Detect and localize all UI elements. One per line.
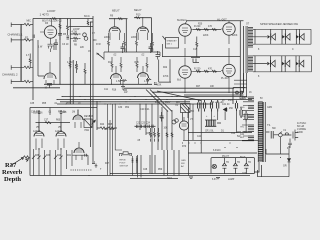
svg-text:OHMS: OHMS [239,98,246,100]
wire trem link [73,154,89,165]
svg-text:220K: 220K [232,35,238,37]
svg-text:C44: C44 [197,136,202,138]
svg-text:GRD: GRD [181,160,186,162]
resistor R15 vertical [111,57,113,72]
R37 Reverb Depth callout [2,158,24,184]
svg-text:R31: R31 [146,133,151,135]
svg-text:1 W: 1 W [38,46,43,49]
wire B+ bus 3 [60,101,190,103]
wire vertical x73 [72,60,74,104]
wire speaker dividers [282,29,297,72]
capacitor C42 [210,100,212,112]
svg-text:Reverb: Reverb [2,169,23,176]
plug P1 AC [293,130,298,141]
capacitor C4 gain [53,43,55,50]
wire T3 leads [183,100,189,121]
wire OT primary lead 2 [243,26,245,93]
transformer T1 core [264,102,266,162]
wire ps box corner [233,88,246,105]
resistor R7 vertical [69,57,71,69]
svg-text:R40: R40 [57,155,62,157]
svg-text:470K: 470K [163,76,169,78]
wire mid verticals [140,100,172,174]
wire resistor blobs P1P2 [196,29,217,31]
wire speaker row2 bottom rail [255,71,312,73]
svg-text:C28: C28 [143,169,148,171]
resistor R25 vertical [196,37,198,57]
resistor R31 vertical [154,128,156,142]
svg-text:GRN: GRN [267,107,272,109]
svg-text:R45: R45 [108,124,113,126]
tube V6A elements [75,110,82,128]
reverb pan box [84,119,92,128]
wire speaker row1 bottom rail [255,43,311,45]
tube P3 elements [182,58,193,93]
svg-text:R39: R39 [46,155,51,157]
capacitor C31 line filter [271,131,273,139]
tube V6B [74,148,84,153]
wire ch1 coupling [54,39,58,50]
svg-text:C35 R55: C35 R55 [31,112,41,114]
resistor R32 vertical [158,128,160,142]
resistor R59 [45,122,51,124]
svg-text:C26: C26 [89,116,94,118]
wire T1 bottom leads [254,162,262,177]
svg-text:MIC: MIC [27,20,32,23]
resistor R61 vertical [166,132,168,138]
svg-text:C60: C60 [242,173,247,175]
tube V2 elements [46,62,54,84]
speaker SP1 [268,35,271,39]
dashed gang line [71,169,92,171]
resistor R20 cathode [146,79,151,81]
svg-text:R57 20: R57 20 [58,112,66,114]
wire pot comb verticals [34,148,73,176]
tube V6A [73,115,83,120]
svg-text:R27: R27 [196,86,201,88]
wire input ground bus [13,87,60,89]
wire bottom verticals [138,150,180,178]
svg-text:220K: 220K [131,36,137,39]
potentiometer R37 [24,156,31,162]
speaker SP5 [282,62,285,66]
resistor R10 plate bus blob [136,17,141,19]
capacitor C5 [121,43,125,53]
svg-text:SPKR SPEAKER JENSEN 8Ω: SPKR SPEAKER JENSEN 8Ω [260,22,298,26]
tube V3B elements [138,18,147,40]
wire diagonal 3 [157,91,201,101]
resistor R6b [87,19,89,26]
svg-text:10K: 10K [210,86,215,88]
transformer T1 secondary 5 [248,136,254,141]
svg-text:TD: TD [237,162,240,164]
svg-text:R16: R16 [112,90,117,92]
wire input jack bus [20,27,22,81]
wire feedback stubs [234,80,247,88]
tube V6B elements [76,142,83,160]
svg-text:6.3V: 6.3V [212,179,217,181]
wire reverb links [39,108,78,151]
impedance selector [236,91,239,94]
capacitor C14 PI [156,51,161,60]
svg-text:R52: R52 [125,107,130,109]
svg-text:4.7M: 4.7M [72,32,77,34]
capacitor C38 [60,110,62,115]
wire P3P4 link [193,70,221,72]
wire ps bus B [183,139,262,141]
resistor R7b vertical [29,54,31,68]
wire AC bottom [258,137,290,177]
wire loop bus x90 [90,22,93,147]
tube V5A elements [36,123,43,150]
pot wiper arrows [32,156,63,159]
wire B+ bus 4 [57,103,212,105]
resistor R26 vertical [191,58,200,63]
svg-text:6L6: 6L6 [177,79,182,82]
tube V5B elements [58,123,65,150]
footswitch connector [120,152,132,156]
wire T2 bottom leads [244,73,247,97]
wire preamp ground bus [44,83,152,85]
capacitor C25 [160,112,164,122]
ground G5 [95,164,98,168]
resistor R2 [21,39,33,41]
svg-text:470: 470 [208,25,213,28]
svg-text:TD: TD [226,162,229,164]
tube V5B reverb [56,132,66,137]
svg-text:R22: R22 [163,67,168,69]
wire main vertical bus B [92,16,94,161]
junction dots [79,96,80,97]
svg-text:6C4: 6C4 [84,14,90,18]
jack J1 channel1 input1 [11,23,21,28]
lamp L1 [212,164,216,168]
wire reverb box inner bus [36,122,71,124]
ground G1 [121,81,125,89]
wire input bus [20,25,22,82]
svg-text:T1: T1 [267,123,271,127]
box pilot lamp enclosure [211,158,255,174]
wire diagonal 1 [146,90,168,112]
wire ps verticals [189,100,247,176]
wire speaker row1 top rail [255,28,311,30]
capacitor C6 [149,43,153,53]
transformer T1 secondary 4 [248,125,254,131]
thermistor S1 [222,158,226,174]
wire T2 taps row2 [253,56,267,72]
resistor R9 plate bus blob [118,18,123,20]
tube V7 elements [182,117,187,140]
tube P1 [179,24,191,36]
svg-text:1 4073: 1 4073 [40,13,50,17]
svg-text:6.3VAC: 6.3VAC [213,149,221,152]
tone caps row [135,125,155,128]
resistor chain R40 [97,127,117,129]
resistor R16 vertical [120,57,122,72]
wire box1 left vertical [32,19,34,101]
resistor R11 vertical [108,33,110,52]
svg-text:SW2: SW2 [167,178,173,180]
wire P1P2 link [193,29,221,31]
svg-text:C15: C15 [193,49,198,51]
svg-text:1.5K: 1.5K [144,80,149,83]
R37 arrow [10,158,24,167]
svg-text:1.5K: 1.5K [157,85,162,87]
svg-text:R15: R15 [135,62,140,64]
svg-text:R20: R20 [198,24,203,26]
wire AC line top [266,132,279,135]
wire bottom bus [30,175,250,177]
svg-text:R44 R45: R44 R45 [104,128,114,131]
svg-text:CHANNEL 1: CHANNEL 1 [8,33,23,37]
transformer T2 winding top [248,28,253,48]
wire vertical x70 [69,19,71,104]
wire PI links [159,59,171,82]
resistor blobs footswitch lines [132,159,138,162]
svg-text:220K: 220K [104,36,110,39]
transformer T1 secondary 1 [248,97,254,102]
svg-text:6EU7: 6EU7 [112,9,120,13]
wire vertical x97 [96,102,98,131]
resistor R17 vertical [136,57,138,72]
tube P4 [223,64,235,76]
wire box1 top [33,18,93,20]
capacitor C2 cathode [48,44,54,52]
capacitor C43 [217,100,219,112]
svg-text:R55: R55 [42,103,47,105]
rectifier block comb [205,120,216,126]
wire coupling drop 2 [151,18,153,52]
wire stage2 plate bus [109,18,128,20]
svg-text:PRI: PRI [190,111,194,113]
thermistor S2 [233,158,237,174]
resistor R4 [21,80,33,82]
ground symbols bottom [123,90,220,179]
wire coupling drop 1 [125,19,127,52]
svg-text:C40: C40 [231,133,236,135]
svg-text:R38: R38 [35,155,40,157]
jack J2 channel1 input2 [11,38,21,43]
svg-text:6EU7: 6EU7 [134,8,142,12]
svg-text:FOOT: FOOT [120,163,127,165]
tube V4B elements [139,66,148,84]
svg-text:SR: SR [283,164,287,168]
transformer T1 secondary 3 [248,115,254,120]
wire ground bus long [124,87,234,89]
svg-text:LAMP: LAMP [228,178,235,181]
speaker SP6 [296,62,299,66]
wire stage2b plate bus [134,17,152,19]
thermistor S3 [244,158,248,174]
svg-text:22K: 22K [80,47,85,49]
wire resistor blobs P3P4 [196,70,217,72]
jack J4 channel2 input2 [11,80,21,85]
capacitor C40 [198,100,200,112]
resistor R6 [71,33,81,35]
svg-text:6L6GC: 6L6GC [177,18,187,22]
resistor R19 cathode [121,80,127,82]
wire B+ bus 2 [57,99,252,101]
resistor R62 vertical [171,132,173,138]
svg-text:GRD: GRD [297,130,303,134]
svg-text:RED: RED [240,107,245,109]
resistor R5b vertical [67,19,69,35]
jack RCA out [172,120,176,124]
svg-text:R50: R50 [158,169,163,171]
wire speaker row2 right end [311,56,313,72]
wire V2 grid link [38,40,44,76]
tube V2 [44,73,56,79]
svg-text:C41 40: C41 40 [222,104,230,106]
wire OT primary lead 1 [239,21,241,97]
speaker SP4 [267,62,270,66]
svg-text:AL-007: AL-007 [217,18,227,22]
tube V4A [111,74,122,80]
tube V1 elements [40,19,54,44]
svg-text:220K: 220K [203,35,209,37]
svg-text:SW 1: SW 1 [167,44,173,46]
svg-text:CHANNEL 2: CHANNEL 2 [2,73,18,77]
svg-text:R47: R47 [105,163,110,165]
wire diagonal 2 [150,90,172,112]
wire ps bus A [188,132,252,134]
resistor R13 vertical [136,33,138,52]
tube P3 [179,66,191,78]
component box edge blob [33,35,34,39]
svg-text:C37: C37 [44,120,49,122]
wire reverb box top [30,107,97,109]
transformer T1 primary winding [258,102,263,161]
transformer T2 core [246,26,247,73]
svg-text:BIAS: BIAS [240,156,246,159]
tube P2 [223,23,235,35]
wire T2 taps row1 [253,29,267,44]
fuse F1 [282,133,291,135]
wire stage2 mid links [104,52,160,60]
resistor R8 vertical [84,63,86,84]
wire screen bus mid [162,56,240,58]
tube P1 elements [182,21,193,57]
tube V7 reverb driver [179,121,188,130]
svg-text:PILOT: PILOT [222,155,229,158]
diode D4 [224,108,227,112]
resistor R3 [21,66,33,68]
resistor R14 vertical [152,33,154,52]
resistor R1 [21,23,33,25]
wire B+ bus 1 [62,96,247,98]
speaker SP3 [296,35,299,39]
svg-text:1M: 1M [72,112,75,114]
wire reverb box left [29,108,31,176]
svg-text:REVB: REVB [120,160,126,162]
pot arrow tremolo [92,120,96,124]
switch SW1 power [279,133,283,137]
component end blob [92,162,95,164]
jack J3 channel2 input1 [11,65,21,70]
speaker SP2 [282,35,285,39]
tube P4 elements [221,57,232,93]
capacitor C2b [58,34,62,41]
svg-text:STANDBY: STANDBY [167,40,178,43]
speaker array [255,29,312,72]
wire bottom bus 3 [130,178,178,180]
resistor R18 vertical [146,57,148,72]
resistor R5 vertical [59,19,61,34]
svg-text:PL-007: PL-007 [221,77,229,80]
svg-text:R10: R10 [136,14,141,17]
diode D5 SR [288,159,291,162]
fx loop jack circle [83,33,87,37]
resistor R24 blob [154,82,158,84]
svg-text:12AX7: 12AX7 [33,130,41,133]
svg-text:C30: C30 [118,107,123,109]
wire vertical x60 [59,19,61,85]
wire bottom bus 2 [110,173,211,175]
tube V4B [138,73,149,78]
wire loop feed [69,26,94,28]
svg-text:450V: 450V [228,100,234,102]
tube V3B [137,27,148,33]
svg-text:PAN: PAN [85,129,90,132]
resistor R6c [71,37,81,39]
svg-text:R W: R W [96,43,101,46]
capacitor C41 [203,100,205,112]
resistor R30 vertical [150,128,152,142]
tube V5A reverb [34,132,44,137]
wire ps bus C [188,152,257,154]
svg-text:470: 470 [208,68,213,71]
transformer T1 secondary 2 [248,106,254,111]
resistor R0 plate blob [52,18,57,20]
svg-text:BLK: BLK [240,137,245,139]
svg-text:4.7M: 4.7M [67,61,72,64]
svg-text:CR1 SIL: CR1 SIL [205,131,214,133]
svg-text:AC: AC [181,165,184,168]
capacitor C46 [245,111,247,122]
svg-text:C41: C41 [240,134,245,136]
tube V3A elements [110,19,120,40]
tube V1 [44,26,56,38]
svg-text:C C: C C [160,117,164,120]
capacitor C37 [38,110,40,115]
svg-text:C3 10: C3 10 [62,43,69,46]
svg-text:R 220: R 220 [194,68,201,71]
component blob col2 [67,36,70,39]
svg-text:R14: R14 [108,62,113,64]
svg-text:12AX7: 12AX7 [55,130,63,133]
svg-text:C20 C21: C20 C21 [140,108,150,111]
wire power amp cathode bus [152,91,244,93]
svg-text:10K: 10K [164,128,169,130]
svg-text:R70: R70 [182,146,187,148]
capacitor C30 ground [288,139,292,149]
svg-text:R41: R41 [67,155,72,157]
tube V4A elements [112,66,121,84]
transformer T2 winding bottom [248,56,253,71]
svg-text:Depth: Depth [4,176,21,183]
svg-text:SWITCH: SWITCH [120,166,129,168]
standby switch box [166,38,179,49]
resistor R7c vertical [76,61,78,73]
svg-text:GRN: GRN [240,116,245,118]
svg-text:C22 C23 C24: C22 C23 C24 [136,123,151,125]
wire diagonal 4 [97,53,104,59]
capacitor C44 [235,101,237,112]
svg-text:1.5K: 1.5K [116,80,121,83]
tube V3A [109,27,120,33]
wire power amp top bus [186,20,244,22]
svg-text:TD: TD [248,162,251,164]
